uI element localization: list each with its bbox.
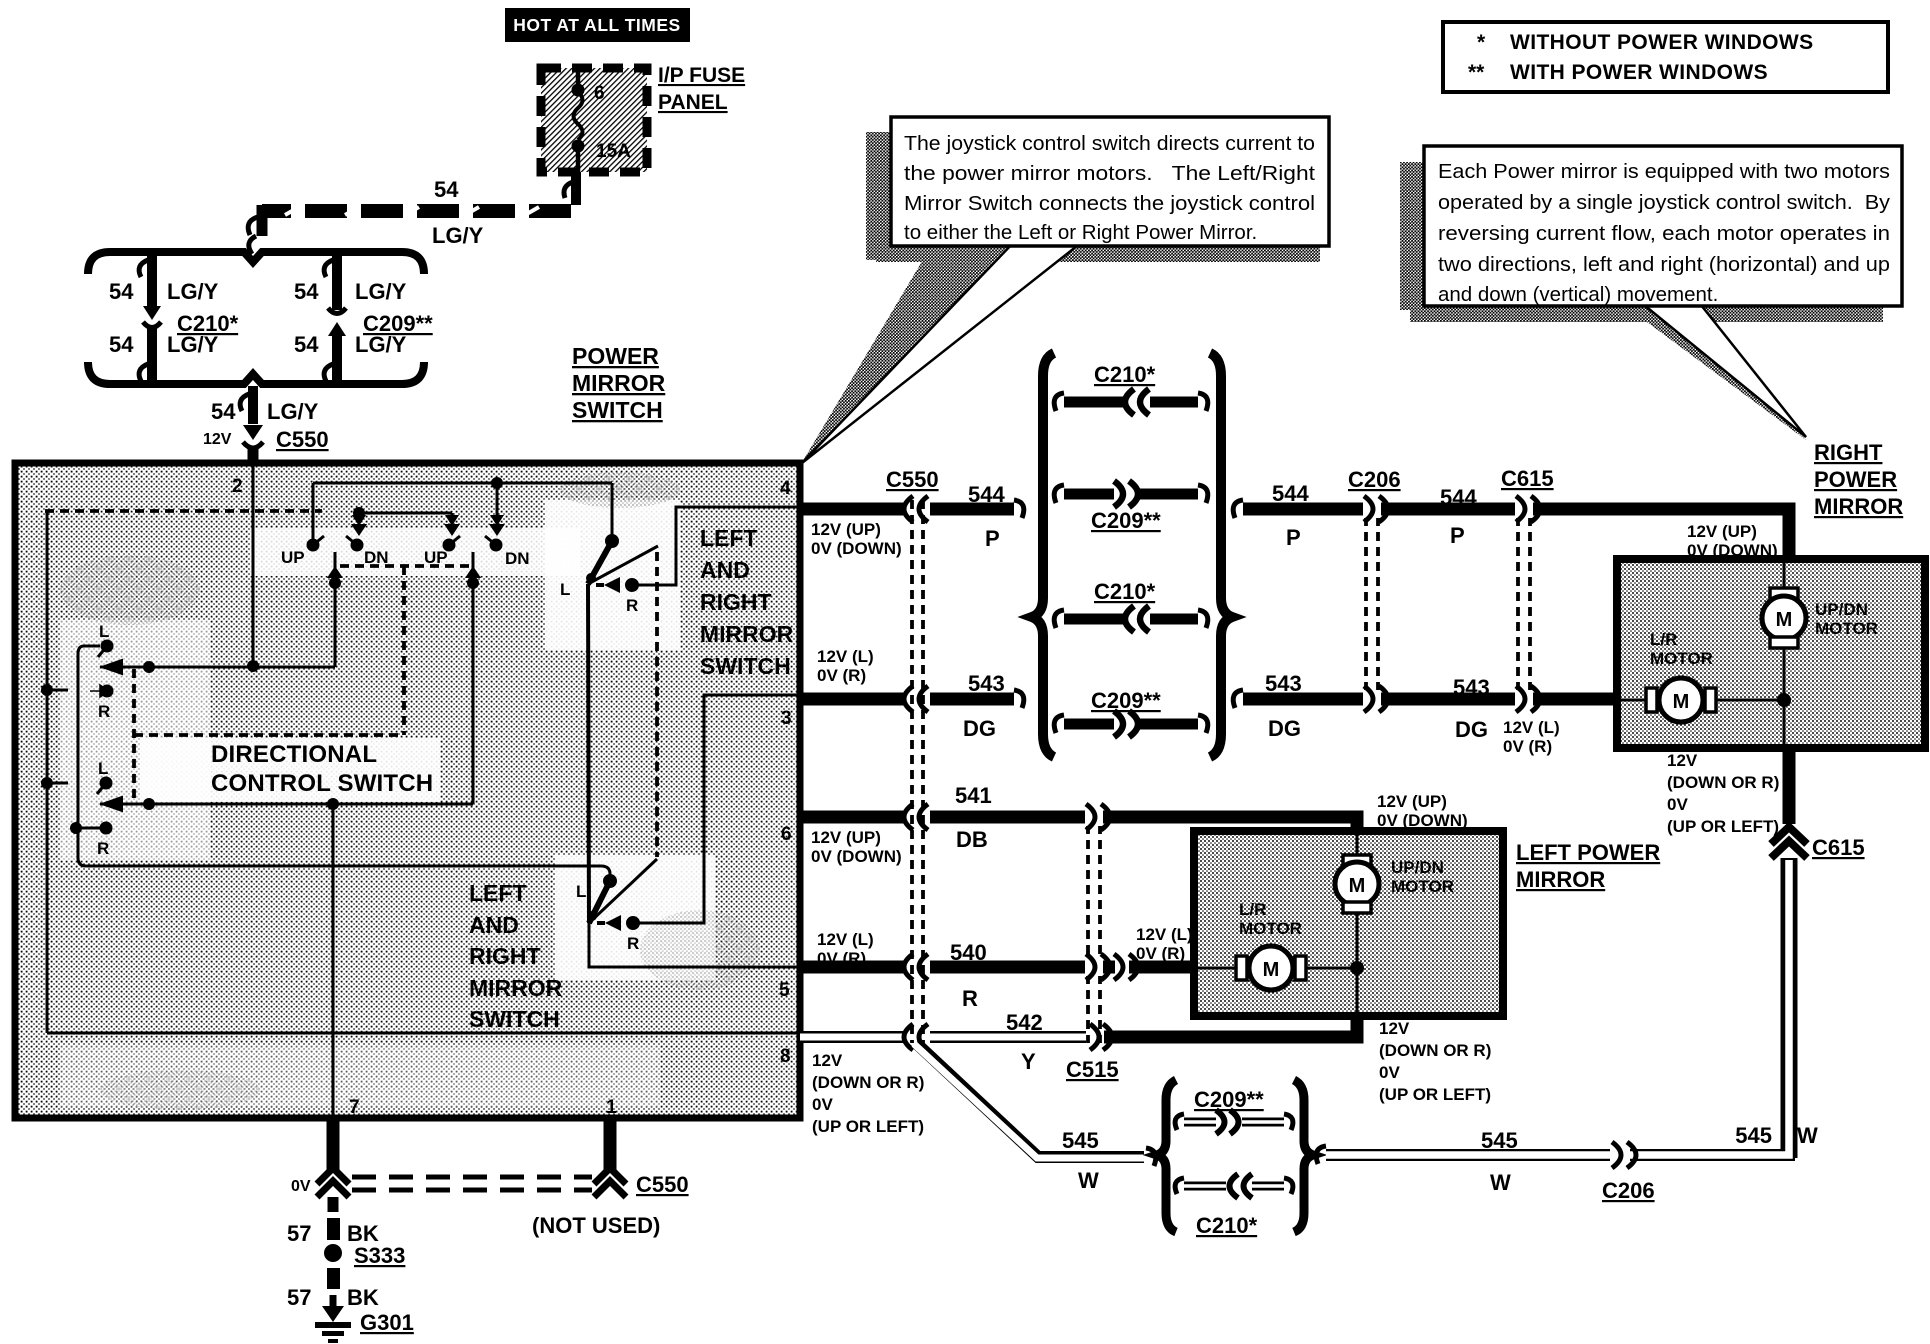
svg-text:12V: 12V (203, 431, 232, 448)
wire selector2 pivot to pin5 (589, 921, 798, 967)
connector C210* (bracket wire 3) (1054, 579, 1208, 632)
wire pin1 lead (604, 1118, 617, 1170)
connector C209** (upper right column) (324, 254, 346, 382)
svg-text:WITH POWER WINDOWS: WITH POWER WINDOWS (1510, 61, 1768, 84)
wire 544 circuit P (800, 496, 1789, 563)
svg-text:(UP OR LEFT): (UP OR LEFT) (1667, 817, 1779, 836)
svg-text:6: 6 (594, 83, 605, 104)
splice bracket top (88, 252, 424, 274)
svg-text:0V: 0V (1667, 795, 1688, 814)
svg-text:M: M (1263, 959, 1280, 981)
connector C550 dashed lines (912, 500, 923, 1043)
svg-text:R: R (98, 702, 110, 721)
svg-text:L: L (576, 882, 586, 901)
connector C210* (lower group wire) (1175, 1174, 1293, 1238)
motor L/R (right mirror) (1621, 678, 1791, 744)
connector C209** (bracket wire 4) (1054, 688, 1208, 737)
svg-text:5: 5 (779, 980, 790, 1001)
svg-text:12V: 12V (812, 1051, 843, 1070)
label POWER MIRROR SWITCH (572, 343, 666, 423)
contact L lower-left (97, 759, 113, 794)
wire 57 BK segment 2 (327, 1268, 340, 1289)
right power mirror box (1617, 559, 1925, 748)
label 12V (L) 0V (R) left mirror (1136, 925, 1193, 963)
svg-text:W: W (1490, 1170, 1511, 1195)
svg-text:6: 6 (781, 824, 792, 845)
svg-text:544: 544 (968, 482, 1005, 507)
rocker contacts UP DN UP DN (307, 536, 503, 552)
svg-text:SWITCH: SWITCH (700, 653, 791, 679)
svg-text:DB: DB (956, 827, 988, 852)
connector C210* (bracket wire 1) (1054, 362, 1208, 415)
svg-text:MOTOR: MOTOR (1391, 877, 1454, 896)
feed stub rail (left) (41, 512, 68, 1033)
svg-text:0V (R): 0V (R) (817, 949, 866, 968)
svg-text:C550: C550 (636, 1172, 689, 1197)
svg-text:C515: C515 (1066, 1057, 1119, 1082)
svg-text:the power mirror motors. The: the power mirror motors. The Left/Right (904, 162, 1315, 185)
svg-text:LEFT: LEFT (700, 525, 758, 551)
svg-text:0V: 0V (291, 1178, 311, 1195)
svg-text:12V (UP): 12V (UP) (1687, 522, 1757, 541)
svg-text:RIGHT: RIGHT (1814, 440, 1883, 465)
junction dots lower common (143, 798, 155, 810)
inner partition line (47, 1032, 800, 1035)
left output rail to selector 2 (86, 866, 610, 881)
svg-text:12V (L): 12V (L) (817, 930, 874, 949)
svg-text:12V: 12V (1667, 751, 1698, 770)
rocker bus lower (351, 507, 460, 536)
contact arrow lower-left (100, 797, 122, 811)
rocker lever 1 (327, 552, 343, 667)
svg-text:UP/DN: UP/DN (1815, 600, 1868, 619)
svg-text:0V: 0V (1379, 1063, 1400, 1082)
wire 54 LG/Y dashed power feed (248, 205, 571, 254)
svg-text:P: P (1286, 525, 1301, 550)
svg-text:I/P FUSE: I/P FUSE (658, 64, 745, 87)
svg-text:545: 545 (1735, 1123, 1772, 1148)
label 12V (UP) 0V (DOWN) right mirror (1687, 522, 1778, 560)
motor L/R (left mirror) (1198, 946, 1364, 1012)
mirror selector switch 2 (lower) (576, 859, 657, 953)
svg-text:4: 4 (780, 478, 791, 499)
svg-text:DG: DG (963, 716, 996, 741)
contact L upper-left (98, 622, 114, 657)
svg-text:0V (DOWN): 0V (DOWN) (811, 539, 902, 558)
svg-text:UP/DN: UP/DN (1391, 858, 1444, 877)
wire pin7 ground lead (327, 1118, 340, 1170)
svg-text:and down (vertical) movement.: and down (vertical) movement. (1438, 283, 1718, 306)
svg-text:C210*: C210* (1094, 362, 1156, 387)
svg-text:C209**: C209** (1091, 688, 1161, 713)
svg-text:545: 545 (1062, 1128, 1099, 1153)
svg-text:C206: C206 (1602, 1178, 1655, 1203)
svg-text:LG/Y: LG/Y (355, 332, 407, 357)
svg-text:WITHOUT POWER WINDOWS: WITHOUT POWER WINDOWS (1510, 31, 1814, 54)
svg-text:12V (UP): 12V (UP) (1377, 792, 1447, 811)
svg-text:DIRECTIONAL: DIRECTIONAL (211, 741, 377, 768)
svg-text:54: 54 (294, 279, 319, 304)
svg-text:15A: 15A (596, 141, 631, 162)
svg-text:R: R (962, 986, 978, 1011)
wire 545 run to right mirror (hollow) (1316, 858, 1789, 1168)
svg-text:R: R (627, 934, 639, 953)
svg-text:C210*: C210* (1094, 579, 1156, 604)
svg-text:AND: AND (700, 557, 750, 583)
label 12V (L) 0V (R) right mirror feed (1503, 718, 1560, 756)
svg-text:0V: 0V (812, 1095, 833, 1114)
svg-text:0V (DOWN): 0V (DOWN) (811, 847, 902, 866)
svg-text:W: W (1797, 1123, 1818, 1148)
svg-text:C209**: C209** (1194, 1087, 1264, 1112)
bracket group 2 (in-line connectors) (1157, 1080, 1313, 1232)
svg-text:(UP OR LEFT): (UP OR LEFT) (812, 1117, 924, 1136)
motor UP/DN (right mirror) (1762, 563, 1806, 700)
wire 540 circuit R (800, 954, 1198, 980)
wire 543 circuit DG (800, 686, 1620, 712)
svg-text:(DOWN OR R): (DOWN OR R) (1379, 1041, 1491, 1060)
svg-text:MOTOR: MOTOR (1815, 619, 1878, 638)
pin 3 voltage label (817, 647, 874, 685)
label LEFT AND RIGHT MIRROR SWITCH (upper) (700, 525, 794, 679)
svg-text:543: 543 (968, 671, 1005, 696)
svg-text:DN: DN (505, 549, 530, 568)
svg-text:CONTROL SWITCH: CONTROL SWITCH (211, 770, 433, 797)
svg-text:UP: UP (281, 548, 305, 567)
svg-text:SWITCH: SWITCH (469, 1006, 560, 1032)
svg-text:543: 543 (1453, 675, 1490, 700)
svg-text:540: 540 (950, 940, 987, 965)
svg-text:P: P (1450, 523, 1465, 548)
svg-text:1: 1 (606, 1097, 617, 1118)
connector C209** (lower group wire) (1175, 1087, 1293, 1134)
svg-text:S333: S333 (354, 1243, 405, 1268)
label RIGHT POWER MIRROR (1814, 440, 1903, 519)
dashed link upper (45, 509, 322, 513)
pin 4 voltage label (811, 520, 902, 558)
label UP/DN MOTOR (left) (1391, 858, 1454, 896)
svg-text:0V (DOWN): 0V (DOWN) (1687, 541, 1778, 560)
svg-text:DG: DG (1268, 716, 1301, 741)
wire 545 branch W (hollow) (914, 1043, 1156, 1166)
svg-text:SWITCH: SWITCH (572, 397, 663, 423)
svg-text:PANEL: PANEL (658, 91, 728, 114)
svg-text:L: L (99, 622, 109, 641)
svg-text:**: ** (1468, 61, 1485, 84)
contact R upper-left (90, 685, 114, 722)
label L/R MOTOR (right) (1650, 630, 1713, 668)
svg-text:L/R: L/R (1239, 900, 1266, 919)
wire selector pivot rail (588, 584, 589, 923)
svg-text:C550: C550 (886, 467, 939, 492)
svg-text:544: 544 (1272, 481, 1309, 506)
svg-text:W: W (1078, 1168, 1099, 1193)
svg-text:L/R: L/R (1650, 630, 1677, 649)
label 12V DOWN OR R (left mirror out) (1379, 1019, 1491, 1104)
wire 57 BK segment 1 (327, 1197, 340, 1240)
callout 1 pointer (802, 242, 1082, 463)
rocker bus upper (313, 477, 612, 540)
svg-text:POWER: POWER (1814, 467, 1897, 492)
svg-text:MIRROR: MIRROR (1516, 867, 1605, 892)
connector C550 (bottom, pin7 side) (317, 1168, 349, 1197)
mirror selector switch 1 (upper) (560, 534, 658, 615)
svg-text:POWER: POWER (572, 343, 659, 369)
power source banner HOT AT ALL TIMES (505, 8, 690, 42)
svg-text:12V (UP): 12V (UP) (811, 520, 881, 539)
svg-text:P: P (985, 526, 1000, 551)
svg-text:541: 541 (955, 783, 992, 808)
svg-text:8: 8 (780, 1046, 791, 1067)
svg-text:0V (R): 0V (R) (817, 666, 866, 685)
label I/P FUSE PANEL (658, 64, 745, 114)
svg-text:C210*: C210* (1196, 1213, 1258, 1238)
power mirror switch box (15, 463, 800, 1118)
contact arrow upper-left (100, 660, 122, 674)
svg-text:G301: G301 (360, 1310, 414, 1335)
callout 2 shadow (1400, 162, 1883, 440)
svg-text:LEFT: LEFT (469, 880, 527, 906)
svg-text:reversing current flow, each m: reversing current flow, each motor opera… (1438, 222, 1890, 245)
wire common upper horizontal (100, 666, 335, 669)
svg-text:54: 54 (109, 279, 134, 304)
left power mirror box (1194, 831, 1503, 1016)
splice S333 (324, 1243, 405, 1268)
svg-text:Mirror Switch connects the joy: Mirror Switch connects the joystick cont… (904, 192, 1315, 215)
svg-text:542: 542 (1006, 1010, 1043, 1035)
svg-text:R: R (626, 596, 638, 615)
splice bracket bottom (88, 362, 424, 384)
svg-text:MIRROR: MIRROR (572, 370, 666, 396)
svg-text:HOT AT ALL TIMES: HOT AT ALL TIMES (513, 15, 680, 35)
label L/R MOTOR (left) (1239, 900, 1302, 938)
label LEFT AND RIGHT MIRROR SWITCH (lower) (469, 880, 563, 1032)
svg-text:The joystick control switch di: The joystick control switch directs curr… (904, 132, 1315, 155)
svg-text:2: 2 (232, 476, 243, 497)
label UP/DN MOTOR (right) (1815, 600, 1878, 638)
svg-text:LG/Y: LG/Y (167, 332, 219, 357)
svg-text:54: 54 (211, 399, 236, 424)
svg-text:544: 544 (1440, 485, 1477, 510)
wire pin7 vertical (332, 804, 335, 1116)
svg-text:two directions, left and right: two directions, left and right (horizont… (1438, 253, 1890, 276)
svg-text:MOTOR: MOTOR (1650, 649, 1713, 668)
svg-text:3: 3 (781, 708, 792, 729)
junction dots upper common (143, 661, 155, 673)
svg-text:C615: C615 (1501, 466, 1554, 491)
left selector rail (70, 646, 100, 866)
svg-text:(UP OR LEFT): (UP OR LEFT) (1379, 1085, 1491, 1104)
svg-text:operated by a single joystick: operated by a single joystick control sw… (1438, 191, 1891, 214)
pin 5 voltage label (817, 930, 874, 968)
svg-text:0V (DOWN): 0V (DOWN) (1377, 811, 1468, 830)
svg-text:to either the Left or Right Po: to either the Left or Right Power Mirror… (904, 221, 1257, 244)
svg-text:M: M (1673, 691, 1690, 713)
svg-text:12V (L): 12V (L) (1136, 925, 1193, 944)
wire 542 circuit Y (hollow then solid) (800, 1012, 1357, 1050)
connector C550 (switch feed) (240, 386, 263, 466)
svg-text:DG: DG (1455, 717, 1488, 742)
svg-text:BK: BK (347, 1285, 379, 1310)
svg-text:MIRROR: MIRROR (700, 621, 794, 647)
svg-text:M: M (1776, 609, 1793, 631)
svg-text:0V (R): 0V (R) (1503, 737, 1552, 756)
wire selector1 R to pin4 (632, 507, 798, 585)
svg-text:54: 54 (294, 332, 319, 357)
pin 8 voltage label (812, 1051, 924, 1136)
svg-text:MIRROR: MIRROR (469, 975, 563, 1001)
connector C210* (upper left column) (139, 254, 161, 382)
fuse F (15A) inside panel (572, 70, 632, 172)
svg-text:(DOWN OR R): (DOWN OR R) (812, 1073, 924, 1092)
svg-text:M: M (1349, 875, 1366, 897)
connector C615 dashed lines (1518, 502, 1530, 706)
svg-text:54: 54 (434, 177, 459, 202)
I/P fuse panel box (541, 68, 647, 172)
contact R lower-left (97, 822, 113, 859)
svg-text:12V (L): 12V (L) (1503, 718, 1560, 737)
dashed jumper between C550 halves (352, 1177, 592, 1190)
svg-text:LG/Y: LG/Y (355, 279, 407, 304)
svg-text:C206: C206 (1348, 467, 1401, 492)
svg-text:C615: C615 (1812, 835, 1865, 860)
svg-text:0V (R): 0V (R) (1136, 944, 1185, 963)
svg-text:*: * (1477, 31, 1486, 54)
svg-text:57: 57 (287, 1285, 311, 1310)
label LEFT POWER MIRROR (1516, 840, 1660, 892)
connector C550 (bottom, pin1 side) (594, 1168, 626, 1197)
connector C515 dashed lines (1088, 810, 1100, 1043)
svg-text:545: 545 (1481, 1128, 1518, 1153)
note box power windows (1443, 22, 1888, 92)
callout 1 shadow (801, 132, 1320, 464)
svg-text:7: 7 (349, 1097, 360, 1118)
svg-text:R: R (97, 839, 109, 858)
label 12V DOWN OR R (right mirror out) (1667, 751, 1779, 836)
connector hook below fuse panel (564, 172, 576, 205)
svg-text:LG/Y: LG/Y (267, 399, 319, 424)
wire common lower horizontal (100, 803, 473, 806)
dashed link rockers (134, 566, 470, 805)
label DIRECTIONAL CONTROL SWITCH (211, 741, 433, 797)
callout 2 pointer (1638, 300, 1806, 437)
pin 6 voltage label (811, 828, 902, 866)
rocker lever 2 (465, 552, 481, 804)
svg-text:Y: Y (1021, 1049, 1036, 1074)
svg-text:L: L (98, 759, 108, 778)
wire selector2 R to pin3 (633, 695, 798, 923)
svg-text:C550: C550 (276, 427, 329, 452)
svg-text:LG/Y: LG/Y (432, 223, 484, 248)
label 12V (UP) 0V (DOWN) left mirror (1377, 792, 1468, 830)
svg-text:MIRROR: MIRROR (1814, 494, 1903, 519)
svg-text:543: 543 (1265, 671, 1302, 696)
connector C209** (bracket wire 2) (1054, 481, 1208, 533)
ground G301 (315, 1295, 414, 1343)
svg-text:AND: AND (469, 912, 519, 938)
svg-text:RIGHT: RIGHT (700, 589, 772, 615)
svg-text:MOTOR: MOTOR (1239, 919, 1302, 938)
svg-text:(NOT USED): (NOT USED) (532, 1213, 660, 1238)
svg-text:12V: 12V (1379, 1019, 1410, 1038)
svg-text:RIGHT: RIGHT (469, 943, 541, 969)
callout 1 note box (891, 117, 1329, 246)
svg-text:54: 54 (109, 332, 134, 357)
svg-text:C209**: C209** (1091, 508, 1161, 533)
svg-text:12V (UP): 12V (UP) (811, 828, 881, 847)
svg-text:L: L (560, 580, 570, 599)
wire pin2 vertical (252, 466, 255, 666)
connector C615 (right mirror lower) (1771, 748, 1807, 858)
callout 2 note box (1424, 146, 1902, 306)
svg-text:57: 57 (287, 1221, 311, 1246)
svg-text:(DOWN OR R): (DOWN OR R) (1667, 773, 1779, 792)
motor UP/DN (left mirror) (1335, 835, 1379, 968)
svg-text:LEFT POWER: LEFT POWER (1516, 840, 1660, 865)
svg-text:LG/Y: LG/Y (167, 279, 219, 304)
svg-text:Each Power mirror is equipped: Each Power mirror is equipped with two m… (1438, 160, 1890, 183)
bracket group (in-line connectors) (1032, 353, 1232, 757)
wire 541 circuit DB (800, 804, 1357, 835)
svg-text:12V (L): 12V (L) (817, 647, 874, 666)
connector C206 dashed lines (1366, 502, 1378, 706)
selector mechanical dashed link (655, 552, 659, 857)
